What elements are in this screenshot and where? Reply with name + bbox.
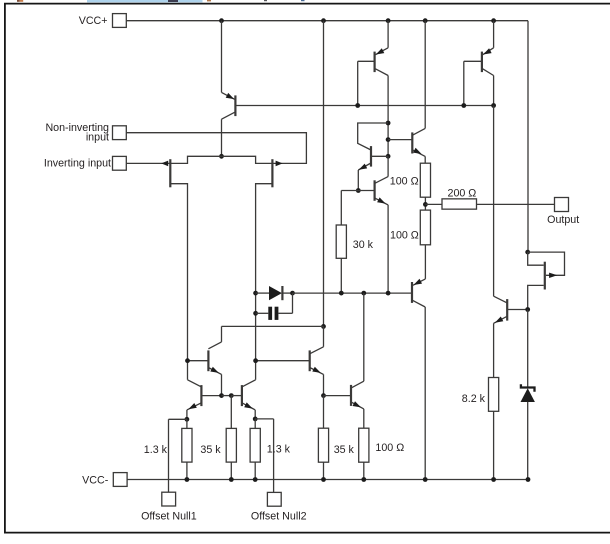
node middle rail upper xyxy=(386,121,391,126)
wire 100ohm-3 bottom xyxy=(363,462,365,479)
transistor Q1 bar (inverting input device) xyxy=(169,159,171,187)
node Q9 base junction xyxy=(355,103,360,108)
svg-text:35 k: 35 k xyxy=(200,444,221,456)
terminal Offset Null2 xyxy=(267,492,281,506)
transistor Q6 base lead xyxy=(231,395,242,397)
transistor Q17 collector xyxy=(375,177,389,184)
transistor Q23 collector lead xyxy=(494,296,507,303)
junction dots on VCC+ rail xyxy=(219,18,224,23)
terminal Inverting input xyxy=(113,156,127,170)
transistor Q17 bar xyxy=(374,180,376,201)
transistor Q23 emitter xyxy=(494,316,507,323)
transistor Q6 emitter xyxy=(242,403,255,410)
transistor Q13 bar xyxy=(481,52,483,73)
resistor 100ohm bottom xyxy=(359,428,369,462)
wire 30k bottom xyxy=(340,258,342,293)
wire zener bottom xyxy=(527,402,529,480)
node Q13 base junction xyxy=(461,103,466,108)
terminal VCC- xyxy=(113,473,127,487)
node lower-mirror top junction xyxy=(321,324,326,329)
wire 35k-1 bottom xyxy=(230,462,232,479)
transistor Q19 bar xyxy=(544,262,546,290)
wire VCC+ rail right drop xyxy=(527,21,529,252)
transistor Q20 collector xyxy=(412,300,425,307)
transistor Q23 bar xyxy=(506,299,508,321)
transistor Q9 emitter wire xyxy=(387,21,389,48)
transistor Q22 collector xyxy=(351,381,364,388)
node input-stage center xyxy=(219,154,224,159)
terminal Non-inverting input xyxy=(113,126,127,140)
transistor Q17 emitter xyxy=(375,198,389,205)
wire Q4-collector drop xyxy=(242,380,256,387)
wire base link xyxy=(222,395,232,397)
wire 35k-1 top xyxy=(230,396,232,429)
wire 1.3k-right top xyxy=(254,419,256,429)
transistor Q19 collector xyxy=(528,285,544,309)
wire Q17 base line xyxy=(341,190,374,192)
transistor Q4 base lead xyxy=(256,360,310,362)
wire cap right lead xyxy=(278,312,292,314)
wire diode anode lead xyxy=(256,292,269,294)
svg-text:input: input xyxy=(86,132,109,144)
wire cap left lead xyxy=(256,312,269,314)
svg-text:8.2 k: 8.2 k xyxy=(462,393,486,405)
svg-text:100 Ω: 100 Ω xyxy=(390,175,419,187)
svg-text:1.3 k: 1.3 k xyxy=(267,443,291,455)
svg-text:Offset Null2: Offset Null2 xyxy=(251,510,307,522)
svg-text:VCC+: VCC+ xyxy=(79,15,108,27)
resistor 1.3k left xyxy=(182,428,192,462)
wire 35k-2 bottom xyxy=(323,462,325,479)
node offset null1 tap xyxy=(185,417,190,422)
node bias top junction xyxy=(525,250,530,255)
wire Q13 collector rail down xyxy=(493,106,495,297)
wire VCC+ rail xyxy=(126,20,528,22)
wire 1.3k-left top xyxy=(186,419,188,428)
terminal Offset Null1 xyxy=(162,492,176,506)
wire Q6 collector riser xyxy=(323,326,325,346)
svg-text:200 Ω: 200 Ω xyxy=(448,188,477,200)
transistor Q22 emitter xyxy=(351,402,364,409)
transistor Q23 base lead xyxy=(507,309,528,311)
transistor Q13 collector xyxy=(483,69,494,76)
wire 30k top xyxy=(340,191,342,226)
wire Q3-collector drop xyxy=(188,380,202,387)
transistor Q20 bar xyxy=(411,282,413,303)
wire diode cathode lead xyxy=(282,292,292,294)
wire Q14 base lead xyxy=(388,139,412,141)
transistor Q5 base lead xyxy=(201,395,221,397)
wire to 200ohm xyxy=(425,203,442,205)
wire offset null1 xyxy=(169,418,187,420)
transistor Q4 emitter xyxy=(310,368,324,375)
node common base right xyxy=(229,393,234,398)
transistor Q16 emitter xyxy=(358,163,371,170)
node output-divider junction xyxy=(423,202,428,207)
transistor Q13 emitter wire xyxy=(493,21,495,48)
resistor 1.3k right xyxy=(250,428,260,462)
transistor Q9 collector xyxy=(375,69,388,76)
wire to Q16 collector xyxy=(358,123,388,150)
wire 100ohm lower to Q20 xyxy=(424,245,426,279)
terminal Output xyxy=(555,198,569,212)
transistor Q14 emitter xyxy=(412,150,425,157)
transistor Q5 emitter xyxy=(187,403,202,410)
transistor Q19 base lead xyxy=(528,252,544,265)
svg-text:Output: Output xyxy=(547,214,579,226)
transistor Q4 bar xyxy=(309,350,311,371)
svg-text:VCC-: VCC- xyxy=(82,474,109,486)
transistor Q6 bar xyxy=(241,385,243,406)
transistor Q3 emitter xyxy=(208,368,221,375)
capacitor C1 xyxy=(268,307,272,320)
transistor Q3 base lead xyxy=(188,360,209,362)
transistor Q9 bar xyxy=(374,52,376,73)
transistor Q2 bar (non-inverting input device) xyxy=(271,159,273,187)
node 30k bottom junction xyxy=(339,291,344,296)
transistor Q16 bar xyxy=(370,146,372,167)
transistor Q5 bar xyxy=(200,385,202,406)
wire y326 link xyxy=(222,325,324,327)
svg-text:100 Ω: 100 Ω xyxy=(375,442,404,454)
svg-text:Offset Null1: Offset Null1 xyxy=(141,510,197,522)
transistor Q9 base lead xyxy=(358,60,375,62)
transistor Q1 lower lead xyxy=(170,184,187,380)
transistor Q1 emitter arrow xyxy=(161,161,168,167)
resistor 100ohm lower xyxy=(420,210,430,245)
wire center to non-inverting riser xyxy=(126,133,306,164)
wire Q22 base lead xyxy=(324,395,352,397)
wire offset null2 xyxy=(255,418,273,420)
transistor Q8 collector xyxy=(222,112,235,119)
page top text sliver (cropped caption line) xyxy=(17,0,20,2)
wire zener top xyxy=(527,310,529,388)
node Q3 base junction xyxy=(185,358,190,363)
junction dots on VCC- rail xyxy=(185,477,190,482)
resistor 8.2k xyxy=(489,378,499,412)
wire 35k-2 top xyxy=(323,396,325,429)
node comp left cap xyxy=(253,311,258,316)
node Q23 base junction xyxy=(525,307,530,312)
transistor Q14 collector xyxy=(412,128,425,135)
node comp left top xyxy=(253,291,258,296)
svg-text:1.3 k: 1.3 k xyxy=(144,444,168,456)
resistor 100ohm upper xyxy=(420,163,430,197)
wire 200ohm to output box xyxy=(477,203,555,205)
wire VCC- rail xyxy=(127,479,528,481)
node middle rail Q14-base xyxy=(386,137,391,142)
zener diode D2 xyxy=(521,384,535,392)
wire 1.3k-left bottom xyxy=(186,462,188,479)
node middle rail lower xyxy=(386,154,391,159)
resistor 200ohm xyxy=(442,199,477,209)
node offset null2 tap xyxy=(253,417,258,422)
transistor Q16 base lead xyxy=(371,155,388,157)
transistor Q8 emitter wire xyxy=(221,21,223,93)
node Q5 collector junction xyxy=(361,291,366,296)
svg-text:Inverting input: Inverting input xyxy=(44,157,111,169)
transistor Q22 bar xyxy=(350,385,352,406)
node Q13 collector junction xyxy=(491,103,496,108)
node common base left xyxy=(219,393,224,398)
node Q22 base junction xyxy=(321,393,326,398)
svg-text:35 k: 35 k xyxy=(334,444,355,456)
node Q16 emitter junction xyxy=(356,188,361,193)
transistor Q19 emitter xyxy=(528,252,565,275)
wire 8.2k bottom xyxy=(493,411,495,479)
transistor Q8 bar xyxy=(234,95,236,116)
transistor Q13 base lead xyxy=(464,60,482,62)
transistor Q2 lower lead xyxy=(256,184,273,380)
transistor Q2 emitter arrow xyxy=(276,161,283,167)
svg-text:100 Ω: 100 Ω xyxy=(390,230,419,242)
resistor 30k xyxy=(336,225,346,258)
wire second rail drop xyxy=(323,21,325,327)
wire Q8/Q9 mirror base line xyxy=(235,105,493,107)
transistor Q3 bar xyxy=(207,350,209,371)
node Q4 base junction xyxy=(253,358,258,363)
wire 1.3k-right bottom xyxy=(254,462,256,479)
resistor 35k left xyxy=(226,428,236,462)
transistor Q14 bar xyxy=(411,132,413,153)
wire Q5 area collector riser xyxy=(221,326,223,342)
terminal VCC+ xyxy=(113,14,127,28)
wire base line y293 xyxy=(293,292,413,294)
node diode cathode junction xyxy=(290,291,295,296)
resistor 35k middle xyxy=(318,428,328,462)
wire center to inverting input xyxy=(126,156,221,163)
diode D1 xyxy=(269,286,282,300)
node Q17 emitter junction xyxy=(386,291,391,296)
wire 100ohm junction xyxy=(424,197,426,210)
svg-text:30 k: 30 k xyxy=(353,239,374,251)
